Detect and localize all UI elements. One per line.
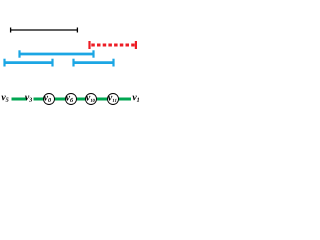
node v6 (circle) — [66, 94, 77, 105]
label v11 — [108, 96, 117, 102]
node v0 (circle) — [44, 94, 55, 105]
edge v5-v4 (green) — [12, 98, 28, 101]
interval I0 (black bracket) — [10, 28, 78, 33]
edge v0-v6 (green) — [54, 98, 66, 101]
label v6 — [66, 96, 73, 102]
label v10 — [86, 96, 95, 102]
node label v3 — [25, 96, 32, 102]
edge v11-v1 (green) — [118, 98, 131, 101]
node v11 (circle) — [108, 94, 119, 105]
node v10 (circle) — [86, 94, 97, 105]
interval B2 (blue, lower left) — [4, 59, 53, 67]
edge v6-v10 (green) — [76, 98, 86, 101]
node label v1 — [132, 96, 139, 102]
interval B3 (blue, lower right) — [73, 59, 114, 67]
node label v5 — [1, 96, 8, 102]
background — [0, 0, 141, 129]
interval R (red dashed) — [90, 41, 136, 49]
edge v4-v0 (green) — [34, 98, 45, 101]
edge v10-v11 (green) — [96, 98, 108, 101]
interval B1 (blue, middle) — [19, 50, 94, 57]
label v0 — [44, 96, 51, 102]
